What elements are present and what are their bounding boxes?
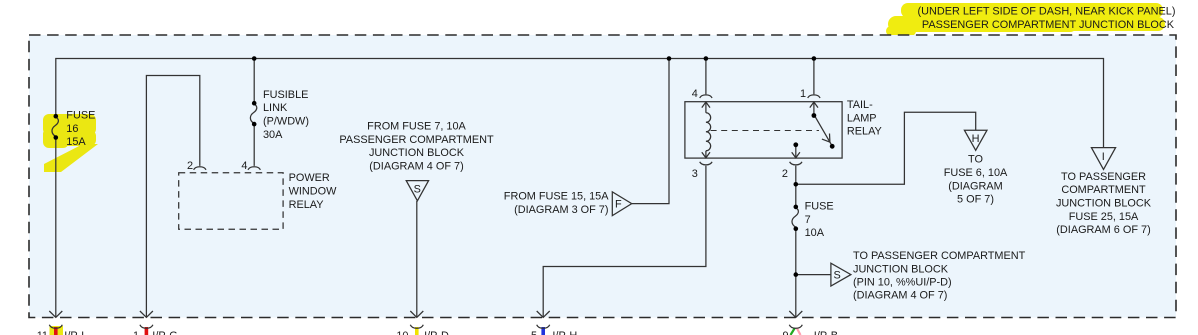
junction dot: fusible link on bus [252,56,257,61]
svg-text:FROM FUSE 15, 15A: FROM FUSE 15, 15A [504,191,609,203]
svg-text:11: 11 [37,330,48,335]
fuse 16 symbol [52,114,58,140]
svg-text:16: 16 [66,123,78,135]
switch end dot [830,144,835,149]
svg-text:TO PASSENGER: TO PASSENGER [1061,171,1146,183]
wire: fusible link to relay pin 4 [253,124,255,166]
junction dot: branch to H [794,182,799,187]
bottom connector I/P-H [531,325,577,335]
svg-text:1: 1 [800,88,806,100]
bottom connector I/P-G [133,325,178,335]
junction dot: pin 4 riser on bus [704,56,709,61]
svg-text:(DIAGRAM 4 OF 7): (DIAGRAM 4 OF 7) [853,290,947,302]
S connector triangle (from fuse 7) [406,181,428,201]
svg-text:FUSE: FUSE [66,110,95,122]
svg-text:10A: 10A [805,227,825,239]
svg-text:FUSIBLE: FUSIBLE [263,89,308,101]
svg-text:4: 4 [692,88,698,100]
wire: bus down to tail-lamp relay pin 4 [705,59,707,95]
bottom connector I/P-B [782,325,838,335]
svg-text:5: 5 [531,330,537,335]
label: from fuse 7 [339,121,494,173]
svg-text:10: 10 [396,330,408,335]
svg-text:JUNCTION BLOCK: JUNCTION BLOCK [1056,198,1152,210]
svg-text:FUSE 25, 15A: FUSE 25, 15A [1069,211,1139,223]
fuse 7 symbol [792,205,798,231]
relay switch [792,102,832,158]
power window relay pin 2 socket [194,167,206,170]
power window relay pin 4 socket [248,167,260,170]
svg-text:I/P-L: I/P-L [64,330,87,335]
I connector triangle [1091,148,1115,170]
wire: bus down to tail-lamp relay pin 1 [813,59,815,95]
wire: bus to fusible link [253,59,255,104]
wire: branch to S connector (right) [796,274,831,276]
switch pivot dot [812,113,817,118]
svg-text:7: 7 [805,214,811,226]
tail-lamp relay pin 2 socket [790,162,802,165]
svg-text:2: 2 [782,168,788,180]
svg-text:WINDOW: WINDOW [289,186,338,198]
svg-text:I/P-G: I/P-G [152,330,177,335]
junction dot: branch to S right [794,272,799,277]
svg-text:(UNDER LEFT SIDE OF DASH, NEAR: (UNDER LEFT SIDE OF DASH, NEAR KICK PANE… [918,6,1176,18]
svg-text:LINK: LINK [263,102,288,114]
wire: I/P-G riser with jog to power window relay pin 2 [146,76,199,318]
svg-text:2: 2 [187,160,193,172]
svg-text:COMPARTMENT: COMPARTMENT [1061,184,1146,196]
svg-text:FUSE 6, 10A: FUSE 6, 10A [944,167,1008,179]
svg-text:I/P-H: I/P-H [552,330,577,335]
svg-text:POWER: POWER [289,172,330,184]
relay coil [702,102,711,158]
svg-text:FROM FUSE 7, 10A: FROM FUSE 7, 10A [367,121,466,133]
label: to fuse 25 [1056,171,1152,236]
svg-text:30A: 30A [263,129,283,141]
relay internal dashed link [711,130,819,132]
svg-text:F: F [615,198,622,210]
highlighter mark over FUSE 16 [43,114,98,172]
svg-text:I: I [1102,151,1105,163]
S connector triangle (right, to pin 10) [831,263,851,286]
svg-text:H: H [972,133,980,145]
tail-lamp relay pin 4 socket [700,95,712,98]
highlighter mark over header text [886,3,1165,36]
svg-text:PASSENGER COMPARTMENT: PASSENGER COMPARTMENT [339,134,494,146]
svg-text:I/P-D: I/P-D [424,330,449,335]
svg-text:JUNCTION BLOCK: JUNCTION BLOCK [369,147,465,159]
label: to fuse 6 [944,154,1008,206]
bottom connector I/P-D [396,325,449,335]
wire: F connector to bus [632,59,669,204]
svg-text:S: S [834,269,841,281]
junction dot: F riser on bus [667,56,672,61]
svg-text:(DIAGRAM 6 OF 7): (DIAGRAM 6 OF 7) [1056,224,1150,236]
svg-text:I/P-B: I/P-B [814,330,838,335]
svg-text:9: 9 [782,330,788,335]
svg-text:1: 1 [133,330,139,335]
svg-text:JUNCTION BLOCK: JUNCTION BLOCK [853,263,949,275]
svg-text:LAMP: LAMP [847,112,877,124]
wire: branch to H connector [796,112,976,184]
svg-text:(DIAGRAM 4 OF 7): (DIAGRAM 4 OF 7) [369,161,463,173]
F connector triangle [612,192,631,216]
svg-text:(P/WDW): (P/WDW) [263,116,309,128]
junction dot: pin 1 riser on bus [812,56,817,61]
bottom connector I/P-L (highlighted) [37,325,88,335]
svg-text:FUSE: FUSE [805,201,834,213]
H connector triangle [964,130,987,150]
svg-text:RELAY: RELAY [289,199,325,211]
svg-text:4: 4 [241,160,247,172]
wire: relay pin 3 down and left to I/P-H drop [543,166,706,318]
tail-lamp relay pin 1 socket [808,95,820,98]
svg-text:PASSENGER COMPARTMENT JUNCTION: PASSENGER COMPARTMENT JUNCTION BLOCK [922,19,1175,31]
svg-text:5 OF 7): 5 OF 7) [957,194,994,206]
svg-text:15A: 15A [66,136,86,148]
svg-text:3: 3 [692,168,698,180]
wire: relay pin 2 down through fuse 7 to bottom border [795,166,797,207]
svg-text:TAIL-: TAIL- [847,99,873,111]
wire: S connector down to bottom border [416,201,418,317]
svg-text:TO: TO [968,154,983,166]
border arrows at bottom [49,311,802,317]
svg-text:(PIN 10, %%UI/P-D): (PIN 10, %%UI/P-D) [853,277,952,289]
bus wire along top [56,59,1104,148]
svg-text:(DIAGRAM: (DIAGRAM [948,180,1002,192]
svg-text:TO PASSENGER COMPARTMENT: TO PASSENGER COMPARTMENT [853,250,1026,262]
wire: fuse16 to bottom border [55,138,57,318]
svg-text:RELAY: RELAY [847,126,883,138]
fusible link symbol [250,101,256,127]
svg-text:(DIAGRAM 3 OF 7): (DIAGRAM 3 OF 7) [514,204,608,216]
power window relay box [179,173,283,230]
svg-text:S: S [414,184,421,196]
tail-lamp relay box [685,102,842,158]
pin 2 contact dot [793,142,798,147]
tail-lamp relay pin 3 socket [700,162,712,165]
